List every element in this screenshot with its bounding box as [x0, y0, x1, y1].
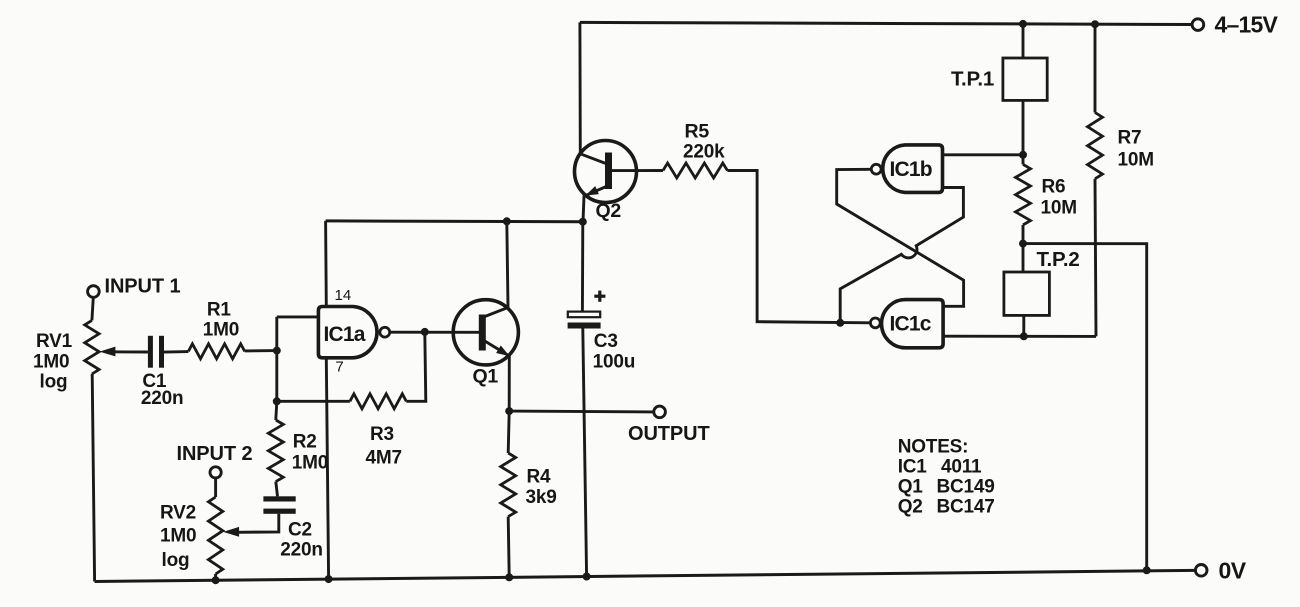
- svg-text:R5: R5: [685, 121, 710, 143]
- transistor Q2 collector lead: [580, 154, 608, 165]
- terminal OUTPUT: [654, 406, 666, 418]
- wire: INPUT1 to RV1 top: [92, 297, 93, 320]
- svg-text:R1: R1: [207, 300, 232, 321]
- wire: IC1c input B: [943, 335, 1096, 338]
- wire: C1 to R1: [164, 350, 188, 353]
- wire: node to C3 top: [581, 222, 584, 312]
- svg-text:BC149: BC149: [937, 477, 995, 498]
- arrow: RV1 wiper: [99, 347, 115, 357]
- wire: node B to R3: [277, 400, 350, 403]
- transistor Q2 emitter lead: [583, 186, 609, 222]
- svg-text:T.P.1: T.P.1: [951, 68, 994, 91]
- wire: top rail to Q2 collector: [578, 22, 581, 153]
- potentiometer RV1: [85, 320, 99, 374]
- junction: 0V rail / R4: [505, 573, 513, 581]
- junction: Q1 emitter / R4 / OUTPUT: [505, 407, 513, 415]
- transistor Q2 body: [575, 141, 637, 203]
- svg-text:log: log: [162, 550, 190, 571]
- nand gate IC1c: [882, 300, 944, 348]
- wire: output line: [509, 410, 654, 414]
- svg-text:1M0: 1M0: [292, 453, 328, 474]
- wire: INPUT2 to RV2: [214, 478, 217, 497]
- junction: top rail / R7: [1091, 20, 1099, 28]
- arrow: RV2 wiper: [223, 527, 239, 537]
- arrow: Q2 emitter: [585, 186, 599, 196]
- wire: T.P.1 to R6: [1022, 101, 1025, 164]
- wire: R3 to IC1a output: [406, 332, 426, 401]
- wire: R6 to T.P.2: [1022, 225, 1025, 272]
- terminal INPUT 2: [210, 467, 221, 478]
- wire: R4 bottom lead: [508, 517, 509, 578]
- wire: T.P.2 bottom lead: [1022, 315, 1025, 336]
- bubble IC1c output: [870, 318, 880, 328]
- svg-text:INPUT 2: INPUT 2: [177, 443, 253, 465]
- wire: R1 to node A: [245, 349, 277, 352]
- resistor R6: [1016, 164, 1031, 225]
- svg-text:220k: 220k: [683, 142, 725, 163]
- junction: T.P.2 bottom / IC1c input: [1020, 332, 1028, 340]
- resistor R4: [501, 453, 516, 517]
- junction: top rail / T.P.1: [1019, 20, 1027, 28]
- wire: top rail to T.P.1: [1022, 24, 1025, 58]
- svg-text:OUTPUT: OUTPUT: [628, 423, 710, 445]
- testpoint T.P.2 box: [1004, 272, 1050, 315]
- svg-text:1M0: 1M0: [33, 352, 69, 373]
- svg-text:R3: R3: [370, 424, 394, 445]
- svg-text:4011: 4011: [941, 457, 982, 478]
- wire: R2 top lead: [276, 401, 277, 420]
- wire: 0V bottom rail: [95, 570, 1196, 581]
- wire: +V top supply rail: [580, 22, 1192, 24]
- wire: right branch to 0V: [1023, 244, 1147, 571]
- svg-text:10M: 10M: [1041, 198, 1077, 219]
- wire: Q2 base lead: [612, 169, 663, 172]
- wire: IC1 pin 7: [326, 358, 328, 579]
- wire: R7 bottom lead: [1095, 179, 1096, 337]
- wire: R4 top lead: [508, 411, 509, 453]
- arrow: Q1 emitter: [496, 346, 509, 357]
- svg-text:3k9: 3k9: [526, 487, 557, 508]
- transistor Q2 base bar: [605, 153, 612, 190]
- svg-text:Q2: Q2: [596, 200, 622, 222]
- wire: RV1 wiper: [110, 350, 148, 353]
- svg-text:Q1: Q1: [473, 366, 499, 388]
- wire: IC1c output cross-couple with hop: [840, 188, 963, 323]
- svg-text:INPUT 1: INPUT 1: [105, 276, 181, 298]
- svg-text:R2: R2: [293, 432, 317, 453]
- wire: RV2 bottom to 0V: [214, 574, 217, 580]
- junction: R6 bottom / right branch: [1019, 240, 1027, 248]
- bubble IC1b output: [871, 164, 881, 174]
- terminal INPUT 1: [88, 286, 100, 298]
- svg-text:4–15V: 4–15V: [1215, 12, 1279, 38]
- svg-text:0V: 0V: [1219, 558, 1247, 584]
- svg-text:BC147: BC147: [937, 497, 995, 518]
- transistor Q1 body: [453, 300, 518, 365]
- svg-text:NOTES:: NOTES:: [898, 437, 969, 458]
- potentiometer RV2: [208, 497, 222, 574]
- junction: 0V rail / right branch: [1143, 566, 1151, 574]
- svg-text:IC1c: IC1c: [890, 313, 932, 336]
- svg-text:RV1: RV1: [36, 331, 73, 352]
- junction: node B (R2/R3): [273, 397, 281, 405]
- wire: IC1 pin 14: [324, 221, 328, 307]
- wire: node A vertical: [275, 317, 278, 401]
- svg-text:14: 14: [335, 287, 352, 304]
- nand gate IC1b: [883, 145, 943, 193]
- svg-text:C2: C2: [288, 520, 312, 541]
- svg-text:C3: C3: [594, 331, 618, 352]
- nand gate IC1a: [318, 307, 377, 358]
- svg-text:R6: R6: [1042, 177, 1066, 198]
- capacitor C3 plates: [568, 312, 600, 318]
- resistor R1: [188, 344, 244, 359]
- bubble IC1a output: [380, 327, 390, 337]
- svg-text:Q1: Q1: [898, 477, 924, 498]
- svg-text:R4: R4: [527, 467, 552, 488]
- svg-text:log: log: [40, 372, 68, 393]
- wire: C2 to RV2 wiper: [236, 514, 279, 533]
- wire: top rail to R7: [1094, 24, 1097, 112]
- svg-text:7: 7: [335, 359, 343, 376]
- svg-text:100u: 100u: [593, 352, 636, 373]
- label C3 polarity +: [594, 295, 605, 298]
- svg-text:IC1a: IC1a: [324, 323, 366, 346]
- resistor R3: [350, 394, 406, 409]
- resistor R2: [268, 420, 283, 482]
- wire: IC1b input A: [943, 153, 1024, 156]
- transistor Q1 collector lead: [482, 221, 508, 317]
- testpoint T.P.1 box: [1003, 58, 1047, 100]
- svg-text:T.P.2: T.P.2: [1037, 248, 1080, 271]
- svg-text:RV2: RV2: [160, 503, 196, 524]
- junction: 0V rail / RV2: [212, 576, 220, 584]
- wire: IC1a output to Q1 base: [389, 331, 479, 334]
- junction: node A (IC1a input): [273, 347, 281, 355]
- transistor Q1 emitter lead: [482, 340, 509, 412]
- junction: 0V rail / C3: [583, 573, 591, 581]
- junction: IC1b input / R6 / T.P.1: [1019, 151, 1027, 159]
- wire: R5 to IC1c output: [727, 171, 870, 323]
- junction: Q2 emitter / C3 node: [579, 218, 587, 226]
- wire: R2 bottom lead: [276, 482, 278, 497]
- svg-text:4M7: 4M7: [366, 448, 402, 469]
- svg-text:IC1: IC1: [898, 457, 928, 478]
- junction: Q1 collector node: [503, 217, 511, 225]
- wire: node A to IC1a inputs: [277, 315, 319, 318]
- terminal 4-15V: [1192, 19, 1204, 31]
- junction: 0V rail / IC1 pin7: [325, 575, 333, 583]
- junction: IC1a output / R3: [421, 328, 429, 336]
- wire: IC1b output cross-couple: [837, 169, 964, 306]
- svg-text:220n: 220n: [141, 388, 184, 409]
- svg-text:1M0: 1M0: [203, 320, 239, 341]
- terminal 0V: [1195, 565, 1207, 577]
- wire: IC1 pin14 feed line: [326, 219, 583, 223]
- resistor R5: [663, 163, 727, 178]
- resistor R7: [1088, 113, 1103, 179]
- svg-text:10M: 10M: [1118, 150, 1154, 171]
- capacitor C1: [148, 336, 153, 368]
- wire: RV1 bottom to 0V rail: [92, 374, 94, 582]
- svg-text:R7: R7: [1118, 128, 1142, 149]
- transistor Q1 base bar: [479, 315, 486, 351]
- wire: C3 bottom to 0V: [583, 329, 587, 577]
- capacitor C2 plates: [263, 496, 295, 501]
- svg-text:Q2: Q2: [898, 497, 923, 518]
- svg-text:IC1b: IC1b: [890, 158, 932, 181]
- svg-text:220n: 220n: [280, 540, 323, 561]
- svg-text:1M0: 1M0: [160, 526, 196, 547]
- junction: IC1c output node: [836, 319, 844, 327]
